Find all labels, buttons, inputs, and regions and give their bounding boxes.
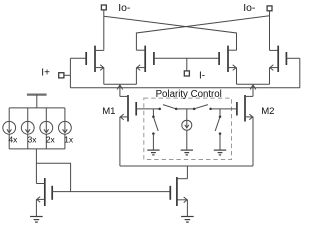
wire right pair common source rail [237, 83, 270, 85]
node dot [175, 108, 178, 111]
wire inner-left source drop [135, 68, 137, 85]
supply stem [36, 95, 38, 108]
pad I- [184, 71, 189, 76]
wire cross-couple: left pad to inner-right drain [104, 16, 237, 50]
node right switch bottom [219, 132, 222, 135]
wire left switch to ground [152, 134, 154, 151]
svg-text:4x: 4x [9, 135, 19, 145]
wire right gate riser [299, 58, 301, 88]
left tail current arrow [117, 85, 123, 90]
node right switch top [219, 116, 222, 119]
left switch arm (open) [153, 117, 158, 131]
wire bank bottom rail [9, 148, 65, 150]
wire outer-left source drop [103, 68, 105, 85]
wire M1 gate to switch rail [136, 108, 159, 110]
svg-text:Io-: Io- [243, 3, 255, 14]
pad Io- right [267, 6, 272, 11]
ground bottom-left [30, 217, 43, 223]
transistor outer-right (top diff pair) [270, 46, 287, 72]
wire I- pad stub [186, 58, 188, 71]
current source 1x [59, 108, 72, 149]
svg-text:I+: I+ [41, 68, 50, 79]
svg-text:I-: I- [199, 71, 205, 82]
current source polarity control [182, 120, 192, 130]
wire left pad down to outer-left drain [103, 10, 105, 51]
wire diode connection branch [36, 163, 70, 191]
ground left switch [147, 150, 159, 155]
wire I- gate rail [154, 57, 219, 59]
wire I+ gate lead [70, 57, 86, 59]
wire outer-right source drop [269, 68, 271, 85]
current source 3x [21, 108, 34, 149]
svg-text:2x: 2x [46, 135, 56, 145]
wire inner-right source drop [236, 68, 238, 85]
wire common node rail across [70, 87, 299, 89]
wire bottom source rail [120, 165, 253, 167]
svg-text:M1: M1 [102, 106, 115, 117]
transistor inner-left (top diff pair) [136, 46, 154, 72]
wire current source stub [186, 109, 188, 120]
transistor outer-left (top diff pair) [86, 46, 104, 72]
right tail current arrow [250, 85, 256, 90]
wire bottom-right source to ground [186, 200, 188, 217]
polarity control dashed box [144, 98, 232, 159]
svg-text:Polarity Control: Polarity Control [156, 89, 222, 100]
node dot rail left [158, 108, 161, 111]
svg-text:Io-: Io- [118, 3, 130, 14]
switch arm top-left (open) [163, 105, 176, 109]
wire left switch stub [152, 109, 154, 116]
right switch arm (open) [215, 117, 220, 131]
ground current source [181, 150, 193, 155]
wire bank top rail [9, 107, 65, 109]
switch arm top-right (open) [194, 105, 208, 109]
pad I+ [59, 73, 64, 78]
wire cross-couple: inner-left drain to right pad [136, 16, 269, 50]
wire right switch stub [219, 109, 221, 116]
wire mirror gate rail [52, 191, 170, 193]
transistor M1 [120, 95, 136, 122]
supply bar [27, 93, 47, 95]
transistor bottom-right (tail) [170, 177, 187, 206]
wire bottom-left source to ground [35, 199, 37, 216]
transistor bottom-left (mirror diode) [36, 178, 52, 206]
wire I+ riser [69, 58, 71, 88]
wire right tail [252, 84, 254, 96]
ground bottom-right [181, 217, 194, 223]
wire bank output drop [35, 149, 37, 184]
current source 4x [3, 108, 16, 149]
wire left tail [119, 84, 121, 96]
pad Io- left [101, 5, 106, 10]
wire bottom-right drain riser [186, 166, 188, 179]
current source 2x [40, 108, 53, 149]
node dot [193, 108, 196, 111]
wire current source to ground [186, 130, 188, 150]
wire right pad down to outer-right drain [269, 11, 271, 51]
ground right switch [214, 150, 226, 155]
wire I+ pad stub [64, 74, 71, 76]
wire left pair common source rail [104, 83, 137, 85]
wire rail middle segment [176, 108, 194, 110]
transistor inner-right (top diff pair) [219, 46, 236, 72]
svg-text:3x: 3x [28, 135, 38, 145]
wire rail to M2 gate [211, 108, 237, 110]
svg-text:1x: 1x [64, 135, 74, 145]
node dot rail right [209, 108, 212, 111]
wire right switch to ground [219, 134, 221, 151]
svg-text:M2: M2 [261, 106, 274, 117]
transistor M2 [237, 95, 253, 122]
node left switch bottom [152, 132, 155, 135]
wire M1 source drop [119, 117, 121, 166]
node left switch top [152, 116, 155, 119]
wire M2 source drop [252, 117, 254, 166]
wire right gate lead [286, 57, 299, 59]
